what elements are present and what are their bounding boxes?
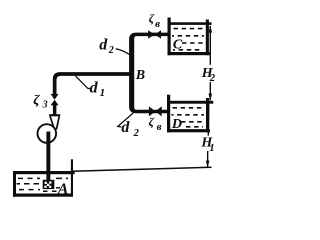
svg-text:в: в bbox=[155, 18, 160, 30]
svg-text:ζ: ζ bbox=[33, 93, 40, 108]
main riser at node B (bracket with two branches) bbox=[129, 33, 168, 114]
tank C left wall bbox=[168, 18, 171, 56]
suction strainer box bbox=[43, 180, 55, 189]
valve Z3 (zeta_3) bbox=[51, 94, 59, 100]
tank A water hatching bbox=[17, 178, 69, 191]
svg-text:1: 1 bbox=[209, 143, 214, 154]
tank C bottom bbox=[168, 52, 211, 55]
leader d2 lower bbox=[118, 113, 133, 127]
leader d1 bbox=[76, 76, 92, 89]
tank D surface line bbox=[167, 101, 213, 104]
tank D water hatching bbox=[172, 108, 205, 127]
tank A surface line bbox=[13, 171, 75, 174]
suction pipe bbox=[46, 132, 50, 181]
valve Zv top (to tank C) bbox=[148, 30, 155, 38]
svg-text:B: B bbox=[135, 68, 145, 83]
svg-text:2: 2 bbox=[209, 73, 216, 84]
svg-text:ζ: ζ bbox=[149, 11, 155, 25]
svg-text:2: 2 bbox=[133, 128, 140, 139]
dimension H1 line upper segment bbox=[207, 104, 209, 135]
discharge pipe bbox=[53, 105, 57, 115]
pipe d1 (riser + horizontal run to node B) bbox=[53, 72, 134, 94]
pump circle bbox=[38, 124, 57, 143]
pump discharge cone lines bbox=[50, 116, 54, 128]
svg-text:d: d bbox=[90, 80, 99, 97]
leader d2 upper bbox=[116, 49, 130, 55]
tank A bottom bbox=[13, 194, 72, 197]
pump flange bbox=[49, 114, 60, 116]
tank A left wall bbox=[13, 171, 16, 197]
svg-text:d: d bbox=[99, 36, 108, 53]
tank C surface line bbox=[168, 22, 212, 25]
svg-text:2: 2 bbox=[108, 45, 114, 56]
svg-text:3: 3 bbox=[42, 100, 48, 111]
tank C water hatching bbox=[172, 29, 204, 50]
svg-text:в: в bbox=[157, 121, 162, 133]
svg-text:1: 1 bbox=[100, 87, 106, 99]
dimension H1 line lower segment with down arrow bbox=[207, 151, 209, 167]
dimension H2 line upper segment with up arrow bbox=[209, 26, 211, 65]
svg-text:C: C bbox=[173, 38, 183, 53]
tank D right wall bbox=[206, 98, 209, 132]
tank D left wall bbox=[167, 95, 170, 133]
svg-text:D: D bbox=[171, 117, 182, 132]
tank D bottom bbox=[167, 129, 210, 132]
tank A right wall bbox=[71, 159, 73, 196]
svg-text:A: A bbox=[57, 181, 69, 198]
tank C right wall bbox=[206, 20, 209, 56]
svg-text:ζ: ζ bbox=[149, 115, 155, 129]
valve Zv bottom (to tank D) bbox=[149, 106, 156, 116]
dimension H2 line lower segment with down arrow bbox=[209, 82, 211, 100]
datum line from tank A level to H1 arrow bbox=[72, 167, 212, 171]
